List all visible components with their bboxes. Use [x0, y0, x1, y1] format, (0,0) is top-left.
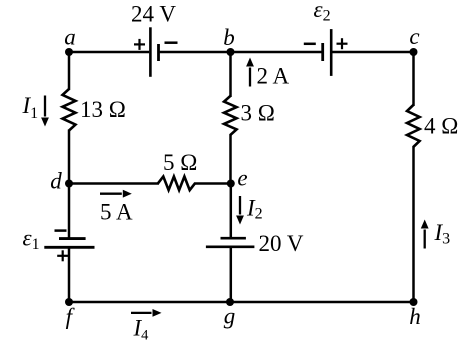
wire a to 24V battery [69, 51, 149, 54]
battery eps1 long plate (positive) [44, 246, 94, 249]
resistor R1 13ohm [63, 89, 76, 131]
svg-text:ε1: ε1 [23, 226, 40, 254]
svg-text:13 Ω: 13 Ω [80, 97, 126, 122]
svg-text:c: c [409, 24, 419, 49]
24V minus sign [165, 41, 178, 44]
svg-text:I4: I4 [133, 316, 150, 344]
battery eps2 short plate (negative) [321, 43, 324, 61]
svg-text:b: b [223, 25, 235, 50]
current arrow I2 (down) [239, 196, 241, 215]
svg-text:5 A: 5 A [100, 199, 133, 224]
current arrow I3 (up) [424, 230, 426, 249]
wire d to 5ohm resistor [69, 182, 159, 185]
svg-text:3 Ω: 3 Ω [241, 101, 275, 126]
wire 20V battery to g [230, 247, 233, 302]
svg-text:20 V: 20 V [259, 231, 304, 256]
wire f to g to h [69, 301, 414, 304]
svg-text:5 Ω: 5 Ω [163, 150, 197, 175]
wire eps2 battery to c [332, 51, 413, 54]
wire 4ohm resistor to h [412, 146, 415, 302]
svg-text:I1: I1 [22, 93, 39, 122]
battery 20V long plate (positive) [206, 245, 255, 248]
svg-text:f: f [66, 304, 76, 329]
svg-text:a: a [64, 25, 76, 50]
svg-text:2 A: 2 A [257, 64, 290, 89]
svg-text:g: g [224, 303, 236, 328]
battery 20V short plate (negative) [221, 237, 246, 240]
svg-text:e: e [237, 166, 247, 191]
node h junction dot [410, 298, 418, 306]
wire 24V battery to b [160, 51, 231, 54]
wire d to eps1 battery [68, 184, 71, 239]
svg-text:I3: I3 [434, 220, 451, 248]
current arrow 5A (right) [100, 193, 122, 195]
battery 24V short plate (negative) [157, 44, 160, 61]
current arrow I1 (down) [44, 96, 46, 117]
svg-text:ε2: ε2 [314, 0, 331, 25]
resistor R4 5ohm [158, 177, 195, 191]
wire 3ohm resistor to e [229, 134, 232, 184]
eps1 plus sign [57, 255, 68, 257]
node e junction dot [227, 180, 235, 188]
wire b to 3ohm resistor [229, 52, 232, 97]
wire c to 4ohm resistor [412, 52, 415, 106]
battery 24V long plate (positive) [149, 27, 152, 77]
battery eps1 short plate (negative) [59, 237, 86, 240]
svg-text:24 V: 24 V [131, 2, 176, 27]
svg-text:h: h [409, 304, 421, 329]
eps2 plus sign [337, 43, 348, 45]
wire eps1 battery to f [68, 248, 71, 303]
resistor R2 3ohm [224, 96, 237, 135]
wire 13ohm resistor to d [68, 130, 71, 184]
current arrow 2A (up) [249, 68, 251, 87]
wire a to 13ohm resistor [68, 52, 71, 90]
node a junction dot [65, 48, 73, 56]
node d junction dot [65, 180, 73, 188]
resistor R3 4ohm [407, 105, 420, 147]
wire 5ohm resistor to e [194, 182, 231, 185]
battery eps2 long plate (positive) [330, 29, 333, 76]
eps1 minus sign [55, 229, 67, 232]
svg-text:I2: I2 [246, 196, 263, 223]
node c junction dot [410, 48, 418, 56]
svg-text:d: d [50, 168, 62, 193]
node b junction dot [227, 48, 235, 56]
eps2 minus sign [304, 43, 316, 46]
current arrow I4 (right) [131, 312, 152, 314]
wire b to eps2 battery [231, 51, 322, 54]
svg-text:4 Ω: 4 Ω [424, 114, 458, 139]
node g junction dot [226, 298, 234, 306]
wire e to 20V battery [230, 184, 233, 239]
24V plus sign [134, 43, 145, 45]
node f junction dot [65, 298, 73, 306]
